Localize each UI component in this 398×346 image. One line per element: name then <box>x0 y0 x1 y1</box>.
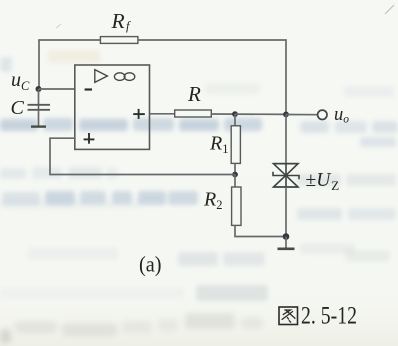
stray scan marks (decorative) <box>385 5 394 14</box>
resistor R <box>175 110 212 117</box>
bleed-through text blobs (decorative) <box>48 50 100 63</box>
resistor R1 <box>231 126 240 164</box>
svg-text:(a): (a) <box>139 252 162 277</box>
wire uC node to capacitor <box>38 89 40 105</box>
svg-text:±UZ: ±UZ <box>306 170 340 193</box>
wire R1 to node D <box>234 163 236 174</box>
wire R to node A <box>211 113 235 115</box>
node A (R / R1 junction) <box>232 111 238 117</box>
resistor R2 <box>232 187 241 225</box>
wire feedback top-left <box>39 40 101 89</box>
node uC (inverting input) <box>36 86 42 92</box>
node B (output / zener branch junction) <box>283 112 289 118</box>
capacitor C <box>28 105 51 110</box>
caption 图 2.5-12 <box>279 300 357 329</box>
svg-text:Rf: Rf <box>111 9 131 33</box>
ground <box>278 248 295 251</box>
node D (R1 / R2 / feedback to noninverting input) <box>232 172 238 178</box>
wire node A to node B <box>235 113 286 115</box>
svg-text:R2: R2 <box>203 189 222 213</box>
wire node A to R1 <box>234 114 236 126</box>
wire node B to output terminal <box>286 114 318 116</box>
resistor Rf <box>100 37 137 44</box>
wire feedback top-right <box>138 40 286 114</box>
wire op-amp output to R <box>150 113 175 115</box>
zener diodes ±UZ (back-to-back) <box>273 164 299 187</box>
svg-text:2. 5-12: 2. 5-12 <box>301 300 357 329</box>
node E (ground junction) <box>283 233 290 240</box>
svg-text:R: R <box>187 82 201 106</box>
wire zener to node E <box>285 187 287 237</box>
svg-text:uo: uo <box>334 105 349 126</box>
wire uC node to op-amp inverting input <box>39 88 76 90</box>
ground (capacitor) <box>31 125 46 127</box>
svg-text:C: C <box>11 97 25 119</box>
wire node B to zener pair <box>285 114 287 163</box>
wire node D to R2 <box>234 175 236 188</box>
svg-text:R1: R1 <box>209 133 228 157</box>
wire capacitor to ground <box>38 110 40 126</box>
wire node D to op-amp noninverting input <box>50 138 235 174</box>
op-amp <box>75 65 150 149</box>
svg-text:uC: uC <box>11 69 30 93</box>
output terminal uo <box>318 110 327 119</box>
wire R2 to ground rail <box>235 225 286 236</box>
wire node E to ground <box>285 237 287 249</box>
